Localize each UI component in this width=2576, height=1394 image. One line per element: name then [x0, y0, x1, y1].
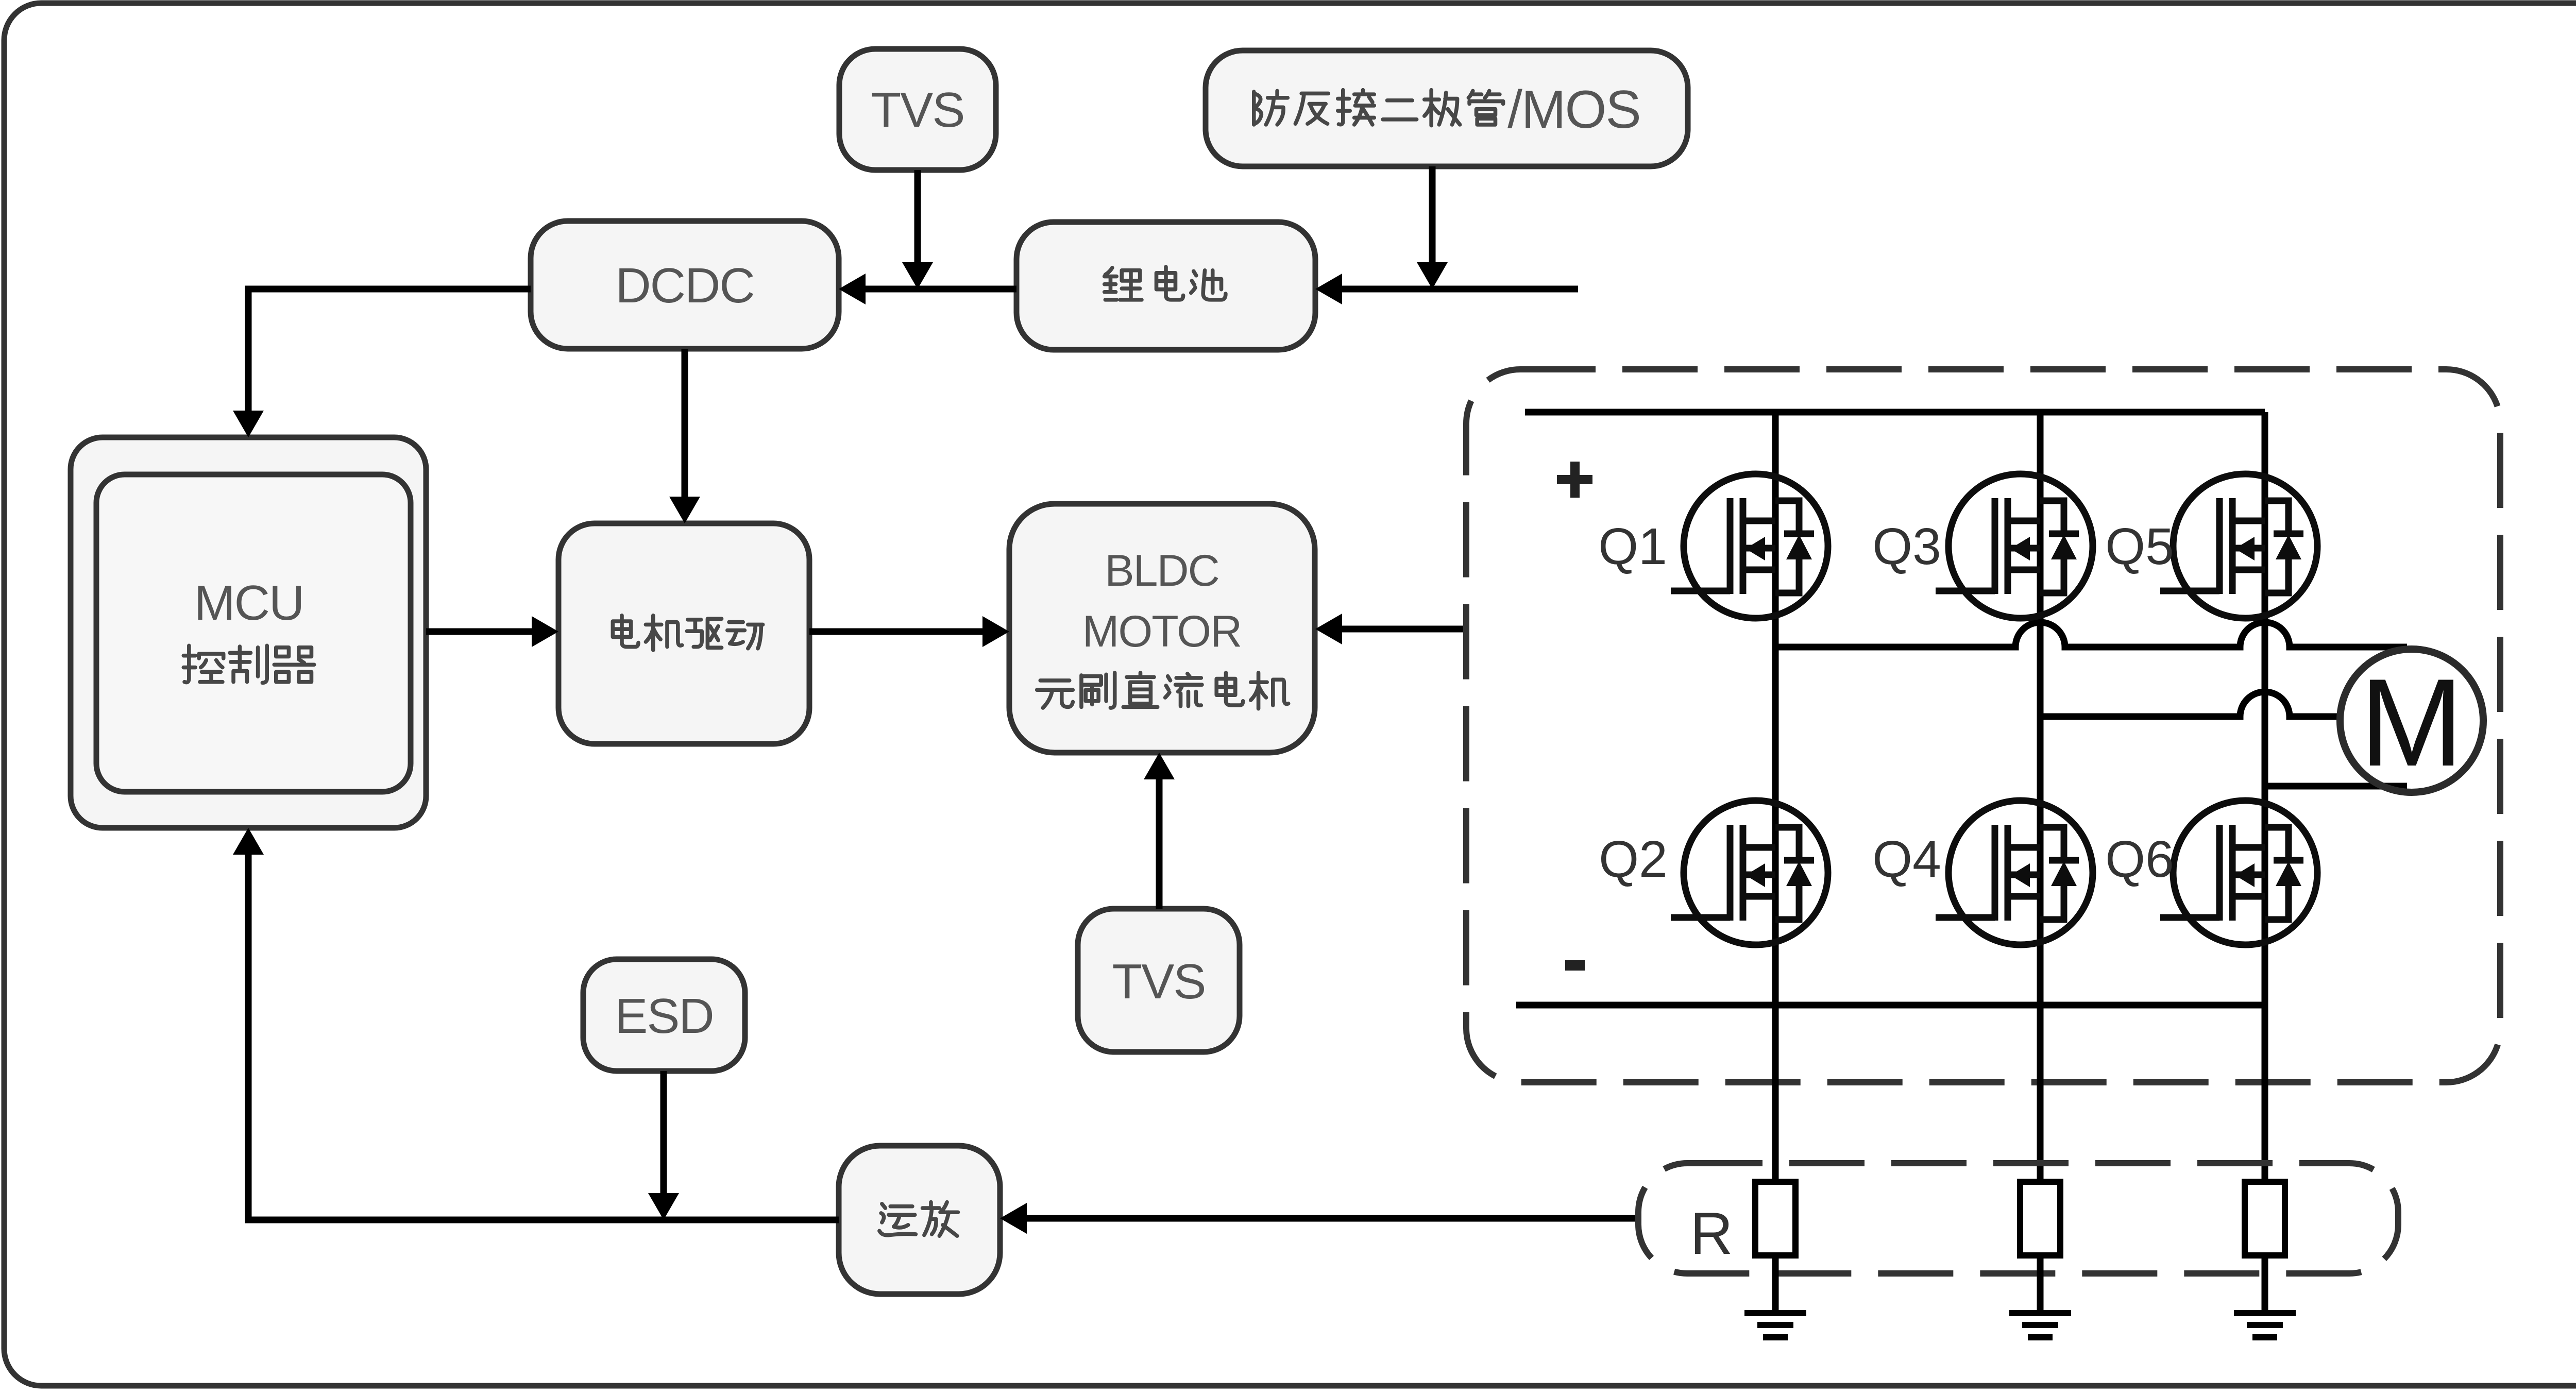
svg-text:Q1: Q1: [1598, 518, 1667, 575]
wire phase-A half-bridge column (Q1/Q2 drain-source): [1772, 412, 1779, 1182]
ground symbol phase C: [2234, 1313, 2296, 1337]
wire phase C to motor: [2265, 783, 2407, 790]
wire phase-C half-bridge column (Q5/Q6 drain-source): [2262, 412, 2268, 1182]
resistor R shunt phase A: [1755, 1182, 1795, 1255]
transistor Q6 (N-MOSFET): [2160, 801, 2317, 945]
svg-text:Q2: Q2: [1599, 830, 1667, 888]
wire battery to DCDC (arrow into DCDC): [839, 274, 1016, 304]
svg-text:Q4: Q4: [1872, 830, 1941, 888]
block 运放 (op-amp): [839, 1146, 1000, 1294]
dashed box: three-phase MOSFET bridge: [1466, 369, 2500, 1082]
block BLDC MOTOR 无刷直流电机: [1009, 504, 1315, 753]
svg-text:DCDC: DCDC: [615, 258, 754, 313]
wire resistor C to ground: [2262, 1255, 2268, 1310]
wire phase-B half-bridge column (Q3/Q4 drain-source): [2037, 412, 2044, 1182]
svg-text:Q5: Q5: [2105, 518, 2174, 575]
plus label (+): [1557, 462, 1592, 498]
wire - bus rail (bottom): [1516, 1002, 2265, 1009]
wire bridge to BLDC MOTOR (arrow into right side): [1315, 614, 1466, 644]
svg-text:TVS: TVS: [1112, 954, 1206, 1009]
wire resistor A to ground: [1772, 1255, 1779, 1310]
minus label (-): [1565, 960, 1585, 971]
svg-text:MOTOR: MOTOR: [1082, 607, 1242, 656]
transistor Q3 (N-MOSFET): [1936, 474, 2093, 618]
block 防反接二极管/MOS: [1206, 50, 1688, 166]
transistor Q2 (N-MOSFET): [1671, 801, 1828, 945]
ground symbol phase A: [1744, 1313, 1806, 1337]
block TVS (motor-side TVS): [1078, 909, 1240, 1052]
wire TVS down to battery line (arrow): [902, 170, 933, 289]
wire 电机驱动 to BLDC MOTOR (arrow): [809, 616, 1009, 647]
svg-text:Q6: Q6: [2105, 830, 2174, 888]
block DCDC converter: [531, 221, 839, 349]
wire shunt R net to op-amp (arrow into op-amp): [1000, 1203, 1641, 1234]
wire phase A to motor (hops over B and C columns): [1775, 622, 2407, 647]
block ESD protection: [583, 959, 745, 1071]
transistor Q4 (N-MOSFET): [1936, 801, 2093, 945]
wire ESD down to op-amp line (arrow): [648, 1071, 679, 1220]
wire anti-reverse MOS down to battery line (arrow): [1417, 166, 1448, 289]
wire DCDC down to 电机驱动 (arrow): [669, 349, 700, 523]
wire TVS up to BLDC MOTOR (arrow): [1144, 753, 1175, 909]
ground symbol phase B: [2009, 1313, 2071, 1337]
resistor R shunt phase C: [2245, 1182, 2285, 1255]
block TVS (battery-side TVS): [839, 49, 996, 170]
transistor Q5 (N-MOSFET): [2160, 474, 2317, 618]
transistor Q1 (N-MOSFET): [1671, 474, 1828, 618]
svg-text:BLDC: BLDC: [1105, 546, 1218, 596]
motor M (BLDC motor circle): [2340, 649, 2483, 792]
block MCU 控制器 (controller, outer): [71, 437, 426, 828]
svg-text:TVS: TVS: [871, 82, 964, 138]
wire MCU to 电机驱动 (arrow): [426, 616, 558, 647]
block 锂电池 (Li battery): [1016, 222, 1315, 350]
dashed box: shunt resistors R: [1638, 1163, 2398, 1273]
wire op-amp to MCU (left run and up, arrow into MCU bottom): [233, 828, 839, 1220]
wire anti-reverse net into battery (arrow into 锂电池): [1315, 274, 1578, 304]
wire + bus rail (top): [1525, 409, 2265, 416]
svg-text:/MOS: /MOS: [1507, 80, 1640, 140]
wire resistor B to ground: [2037, 1255, 2044, 1310]
svg-text:MCU: MCU: [194, 575, 304, 631]
svg-text:Q3: Q3: [1872, 518, 1941, 575]
block MCU 控制器 (inner outline): [96, 474, 411, 792]
svg-text:M: M: [2360, 653, 2464, 792]
svg-text:R: R: [1690, 1201, 1733, 1267]
svg-text:ESD: ESD: [615, 989, 713, 1044]
resistor R shunt phase B: [2020, 1182, 2060, 1255]
wire DCDC left then down to MCU (arrow into MCU top): [233, 289, 531, 437]
wire phase B to motor (hops over C column): [2040, 692, 2342, 717]
block 电机驱动 (motor drive): [558, 523, 809, 744]
